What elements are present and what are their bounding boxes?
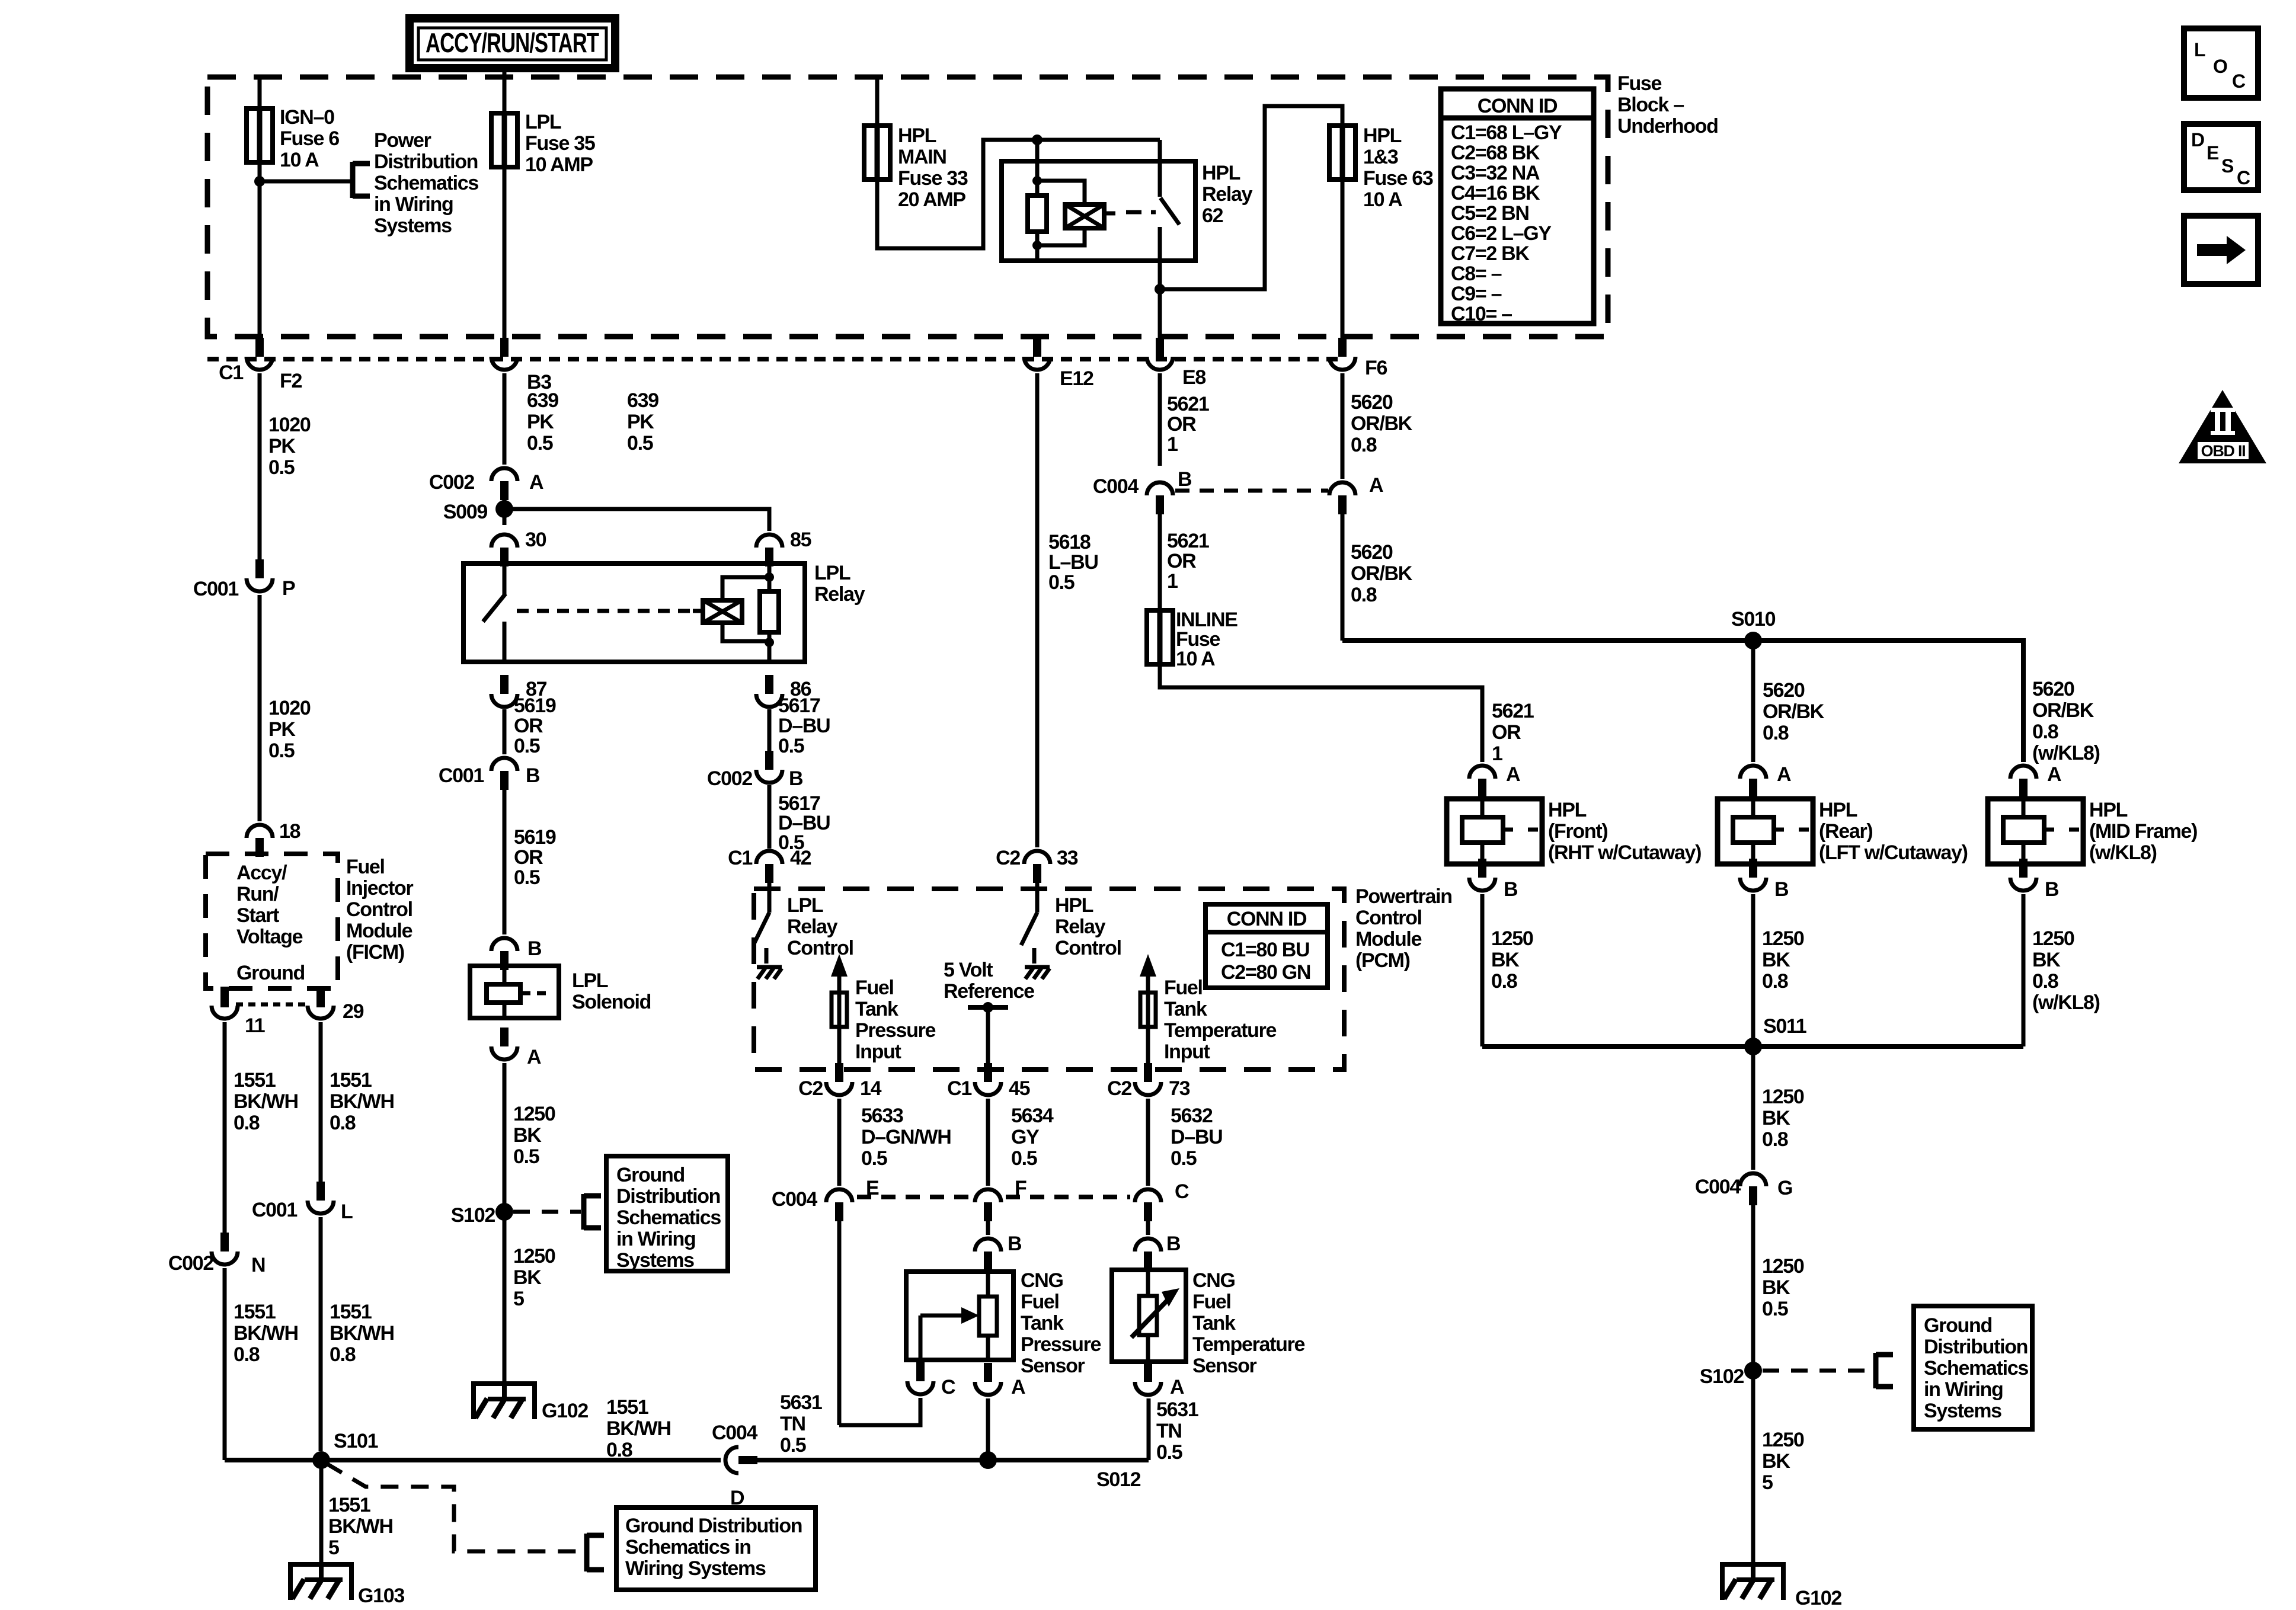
svg-text:0.8: 0.8	[1763, 722, 1789, 744]
svg-text:11: 11	[245, 1014, 265, 1037]
connector pin E8	[1156, 338, 1164, 357]
connector relay pin 85	[765, 548, 773, 566]
connector PCM pin 42 (C1)	[765, 864, 773, 883]
svg-text:BK: BK	[513, 1124, 542, 1147]
svg-text:P: P	[282, 577, 295, 600]
svg-text:OR: OR	[1167, 413, 1196, 436]
svg-text:0.5: 0.5	[1171, 1147, 1197, 1170]
svg-text:PK: PK	[527, 411, 554, 433]
svg-text:C: C	[2237, 167, 2250, 188]
svg-text:(w/KL8): (w/KL8)	[2032, 991, 2100, 1014]
svg-text:IGN–0: IGN–0	[280, 106, 334, 129]
svg-text:Relay: Relay	[1202, 183, 1253, 206]
svg-text:A: A	[1170, 1376, 1184, 1398]
svg-text:5620: 5620	[1763, 679, 1805, 702]
svg-text:85: 85	[790, 529, 811, 551]
wire: solenoid A to G102	[503, 1063, 507, 1382]
svg-text:Fuel: Fuel	[855, 977, 894, 999]
svg-text:0.8: 0.8	[234, 1112, 260, 1134]
svg-text:1250: 1250	[513, 1245, 555, 1267]
wire: 5620 bus to mid lamp	[1342, 641, 2023, 762]
FICM pin 29 stub	[316, 988, 325, 1007]
junction on HPL relay feed	[1032, 135, 1043, 145]
svg-text:BK/WH: BK/WH	[328, 1515, 393, 1538]
junction: switch output to fuse 63	[1155, 284, 1165, 295]
connector relay pin 87	[500, 675, 509, 694]
svg-text:B: B	[1166, 1233, 1181, 1255]
svg-text:C1: C1	[947, 1077, 971, 1100]
svg-text:in Wiring: in Wiring	[374, 193, 453, 216]
wire: C004 F to sensor B	[986, 1220, 990, 1235]
svg-text:B: B	[789, 767, 803, 790]
svg-text:C7=2 BK: C7=2 BK	[1451, 242, 1530, 265]
LPL relay coil resistor	[760, 591, 779, 632]
connector C004 pin F	[984, 1202, 992, 1221]
svg-text:A: A	[1506, 763, 1520, 786]
dashed connector row C004 (B to A)	[1175, 489, 1328, 493]
dotted connector row between pins 11/29	[236, 1003, 309, 1007]
power feed banner ACCY/RUN/START	[410, 18, 615, 68]
svg-text:C: C	[2232, 71, 2246, 92]
svg-text:A: A	[529, 471, 543, 494]
svg-text:PK: PK	[268, 435, 296, 457]
svg-text:OR/BK: OR/BK	[1351, 412, 1413, 435]
svg-text:G: G	[1777, 1177, 1792, 1199]
svg-text:1551: 1551	[234, 1301, 276, 1323]
svg-text:LPL: LPL	[787, 894, 823, 917]
connector PCM pin 45 (C1)	[984, 1063, 992, 1082]
svg-text:C002: C002	[707, 767, 752, 790]
svg-text:Sensor: Sensor	[1021, 1355, 1085, 1377]
svg-text:C001: C001	[193, 578, 238, 600]
svg-text:5621: 5621	[1167, 530, 1209, 552]
svg-text:A: A	[1777, 763, 1791, 786]
lamp HPL x=2501	[1447, 799, 1542, 864]
wire: inline fuse to HPL front lamp	[1160, 664, 1482, 762]
connector relay pin 30	[500, 548, 509, 566]
connector C004 pin C	[1144, 1202, 1152, 1221]
wire: pin 85 to coil	[768, 564, 772, 591]
svg-text:S009: S009	[443, 501, 488, 523]
svg-text:18: 18	[279, 820, 300, 843]
svg-text:(FICM): (FICM)	[346, 941, 404, 964]
ground bus: C004 D to temp sensor	[757, 1458, 1149, 1462]
svg-text:BK: BK	[1762, 1450, 1790, 1473]
svg-text:BK: BK	[1762, 1276, 1790, 1299]
svg-text:PK: PK	[268, 718, 296, 741]
svg-text:C1: C1	[728, 847, 752, 869]
wire: pin 29 down	[319, 1022, 323, 1183]
svg-text:Control: Control	[1055, 937, 1121, 959]
splice S012	[979, 1451, 997, 1469]
connector lamp pin A x=2958	[1749, 779, 1757, 798]
connector C001 pin L	[316, 1182, 325, 1201]
svg-text:Pressure: Pressure	[855, 1019, 936, 1042]
wire: feed to HPL MAIN fuse	[875, 77, 880, 126]
wire: switch to E8	[1158, 227, 1162, 341]
splice S011	[1744, 1038, 1762, 1055]
svg-text:45: 45	[1009, 1077, 1030, 1100]
connector PCM pin 33 (C2)	[1033, 864, 1041, 883]
off-page ref bracket (power distribution)	[350, 162, 356, 198]
svg-text:S: S	[2221, 155, 2234, 177]
svg-text:G103: G103	[358, 1585, 404, 1607]
wire: lamp B to S011 bus	[1751, 894, 1755, 1046]
svg-text:C004: C004	[1695, 1176, 1741, 1198]
svg-text:BK/WH: BK/WH	[330, 1322, 394, 1345]
svg-text:CNG: CNG	[1192, 1269, 1235, 1292]
svg-text:5621: 5621	[1492, 700, 1534, 722]
svg-text:Block –: Block –	[1617, 94, 1684, 116]
svg-text:D–GN/WH: D–GN/WH	[861, 1126, 951, 1148]
svg-text:HPL: HPL	[1055, 894, 1093, 917]
PCM dashed box	[754, 889, 1344, 1070]
svg-text:0.8: 0.8	[606, 1439, 632, 1461]
connector relay pin 86	[765, 675, 773, 694]
connector pressure sensor pin C	[916, 1362, 925, 1381]
svg-text:5619: 5619	[514, 694, 556, 717]
HPL relay control switch + ground	[1035, 883, 1040, 913]
wire: C004 A down	[1341, 513, 1345, 641]
svg-text:1551: 1551	[328, 1494, 370, 1516]
svg-text:5 Volt: 5 Volt	[944, 959, 993, 981]
svg-text:C1: C1	[219, 361, 243, 384]
wire: S010 to rear lamp	[1751, 641, 1755, 762]
LPL relay coil crossed-box	[703, 600, 742, 623]
svg-text:BK/WH: BK/WH	[606, 1417, 671, 1440]
wire: branch to HPL 1&3 Fuse 63	[1160, 106, 1342, 289]
LPL relay control switch + ground	[768, 883, 772, 913]
svg-text:0.5: 0.5	[1011, 1147, 1037, 1170]
svg-text:0.8: 0.8	[2032, 721, 2058, 743]
svg-text:Run/: Run/	[236, 883, 279, 905]
HPL relay switch blade	[1160, 198, 1179, 225]
svg-text:C002: C002	[429, 471, 474, 494]
wire: coil parallel branch bottom	[1037, 228, 1085, 245]
connector C1 pin F2	[255, 338, 264, 357]
svg-text:0.8: 0.8	[1351, 584, 1377, 606]
wire: ACCY box to LPL Fuse 35 / B3	[503, 68, 507, 341]
svg-text:0.8: 0.8	[1351, 434, 1377, 456]
svg-text:10 AMP: 10 AMP	[525, 153, 593, 176]
FICM pin 11 stub	[220, 988, 229, 1007]
off-page ref bracket (S102 left)	[581, 1194, 587, 1230]
svg-text:Fuse 6: Fuse 6	[280, 127, 339, 150]
svg-text:(Rear): (Rear)	[1819, 820, 1872, 843]
svg-text:0.5: 0.5	[527, 432, 553, 454]
svg-text:Ground: Ground	[1924, 1314, 1992, 1337]
connector C004 pin A	[1338, 495, 1347, 514]
wire: coil feed into relay	[1035, 140, 1040, 196]
svg-text:BK: BK	[1491, 949, 1520, 971]
svg-text:S102: S102	[1700, 1365, 1744, 1388]
svg-text:Relay: Relay	[1055, 916, 1106, 938]
svg-text:BK/WH: BK/WH	[234, 1090, 298, 1113]
svg-text:E8: E8	[1182, 366, 1205, 389]
CONN ID table (fuse block underhood)	[1441, 89, 1594, 324]
svg-text:E12: E12	[1060, 367, 1093, 390]
ref box: Ground Distribution Schematics in Wiring Systems	[616, 1507, 816, 1590]
wire: 87 to C001 B	[503, 709, 507, 754]
svg-text:A: A	[2047, 763, 2061, 786]
svg-text:F2: F2	[280, 370, 302, 392]
splice S102 (right)	[1744, 1362, 1762, 1379]
svg-text:10 A: 10 A	[280, 149, 319, 171]
svg-text:D: D	[2191, 129, 2204, 151]
svg-text:0.5: 0.5	[780, 1434, 806, 1457]
svg-text:29: 29	[343, 1000, 364, 1023]
wire: C002 B to PCM pin 42	[768, 785, 772, 849]
svg-text:Module: Module	[1355, 928, 1422, 950]
off-page ref bracket (S101)	[584, 1534, 590, 1571]
svg-text:73: 73	[1169, 1077, 1190, 1100]
wire: pin 30 into switch	[503, 564, 507, 595]
svg-text:0.8: 0.8	[2032, 970, 2058, 993]
connector FICM pin 29	[316, 987, 325, 1006]
svg-text:1250: 1250	[1762, 927, 1804, 950]
wire: S011 to C004 G	[1751, 1046, 1755, 1170]
svg-text:10 A: 10 A	[1363, 188, 1402, 211]
svg-text:S101: S101	[334, 1430, 378, 1452]
svg-text:(LFT w/Cutaway): (LFT w/Cutaway)	[1819, 841, 1968, 864]
svg-text:1250: 1250	[1491, 927, 1533, 950]
connector lamp pin A x=3414	[2019, 779, 2028, 798]
svg-text:Accy/: Accy/	[236, 862, 287, 884]
svg-text:C8= –: C8= –	[1451, 263, 1502, 285]
svg-text:639: 639	[527, 389, 558, 412]
svg-text:L: L	[341, 1201, 353, 1223]
svg-text:Schematics: Schematics	[616, 1206, 721, 1229]
svg-text:42: 42	[790, 847, 811, 869]
svg-text:5618: 5618	[1048, 531, 1091, 553]
connector FICM pin 11	[220, 987, 229, 1006]
svg-text:B: B	[1008, 1233, 1022, 1255]
CNG Fuel Tank Pressure Sensor box	[906, 1272, 1013, 1360]
svg-text:C5=2 BN: C5=2 BN	[1451, 202, 1529, 225]
svg-text:30: 30	[525, 529, 546, 551]
svg-text:Control: Control	[1355, 907, 1422, 929]
dashed ref from S101	[327, 1464, 580, 1551]
connector C002 pin N	[220, 1233, 229, 1251]
svg-text:BK: BK	[1762, 1107, 1790, 1129]
svg-text:Ground: Ground	[236, 962, 305, 984]
svg-text:5634: 5634	[1011, 1105, 1054, 1127]
svg-text:N: N	[251, 1254, 265, 1276]
svg-text:Systems: Systems	[1924, 1400, 2001, 1422]
CNG Fuel Tank Temperature Sensor box	[1112, 1270, 1186, 1362]
wire: coil parallel branch top	[722, 577, 769, 600]
connector temp sensor pin A	[1144, 1363, 1152, 1382]
svg-text:1: 1	[1167, 433, 1178, 456]
svg-text:Start: Start	[236, 904, 279, 927]
svg-text:0.5: 0.5	[1048, 571, 1075, 594]
relay actuation dashed link	[1126, 210, 1156, 215]
wire: C001 L to S101	[319, 1217, 323, 1451]
connector C004 pin G	[1749, 1186, 1757, 1205]
dashed connector row C004 (E to F)	[857, 1195, 970, 1199]
svg-text:Fuel: Fuel	[346, 856, 385, 878]
svg-text:5: 5	[1762, 1471, 1773, 1494]
wire: coil parallel branch top	[1037, 181, 1085, 204]
connector lamp pin B x=2501	[1478, 859, 1486, 878]
wire: tap to power distribution ref	[260, 180, 353, 184]
svg-text:C2: C2	[996, 847, 1020, 869]
temp sensor diagonal arrow	[1131, 1299, 1168, 1337]
svg-text:Fuse: Fuse	[1617, 72, 1662, 95]
svg-text:(w/KL8): (w/KL8)	[2032, 742, 2100, 764]
svg-text:Systems: Systems	[616, 1249, 694, 1272]
svg-text:OR/BK: OR/BK	[1351, 562, 1413, 585]
svg-text:HPL: HPL	[898, 124, 936, 147]
svg-text:MAIN: MAIN	[898, 146, 946, 168]
svg-text:C4=16 BK: C4=16 BK	[1451, 182, 1540, 204]
svg-text:0.8: 0.8	[1762, 970, 1788, 993]
svg-text:5: 5	[513, 1288, 524, 1310]
svg-text:OR: OR	[514, 846, 543, 869]
svg-text:HPL: HPL	[1548, 799, 1587, 821]
svg-text:C: C	[941, 1376, 955, 1398]
ground bus: left elbow to C004 D	[225, 1458, 721, 1462]
DESC legend box	[2184, 124, 2258, 190]
svg-text:C004: C004	[1093, 475, 1139, 498]
relay HPL Relay 62 box	[1002, 161, 1195, 261]
wire: ACCY feed to IGN-0 fuse / F2	[258, 77, 262, 341]
svg-text:(w/KL8): (w/KL8)	[2089, 841, 2157, 864]
svg-text:C002: C002	[168, 1252, 213, 1275]
svg-text:62: 62	[1202, 204, 1223, 227]
wire: temp sensor A to bus corner	[1147, 1398, 1151, 1460]
svg-text:(Front): (Front)	[1548, 820, 1607, 843]
svg-text:CONN ID: CONN ID	[1478, 95, 1558, 117]
fuse HPL 1&3 Fuse 63 10A	[1329, 126, 1355, 180]
svg-text:5633: 5633	[861, 1105, 903, 1127]
svg-text:Temperature: Temperature	[1164, 1019, 1277, 1042]
svg-text:Fuse 33: Fuse 33	[898, 167, 968, 190]
svg-text:CNG: CNG	[1021, 1269, 1063, 1292]
svg-text:1551: 1551	[330, 1301, 372, 1323]
svg-text:5: 5	[328, 1537, 339, 1559]
lamp HPL x=2958	[1718, 799, 1813, 864]
wire: C004 B to inline fuse	[1158, 513, 1162, 610]
svg-text:1551: 1551	[330, 1069, 372, 1092]
wire: S009 branch to relay pin 85	[504, 509, 769, 531]
wire: pressure A to S012	[986, 1398, 990, 1460]
connector C001 pin B	[500, 771, 509, 790]
svg-text:0.5: 0.5	[514, 735, 540, 757]
svg-text:1250: 1250	[1762, 1086, 1804, 1108]
svg-text:Ground: Ground	[616, 1164, 685, 1186]
svg-text:S010: S010	[1731, 608, 1776, 630]
svg-text:33: 33	[1057, 847, 1078, 869]
svg-text:ACCY/RUN/START: ACCY/RUN/START	[426, 27, 599, 58]
HPL relay coil resistor	[1028, 196, 1047, 232]
svg-text:Tank: Tank	[1192, 1312, 1236, 1334]
wire: C004 G to G102	[1751, 1204, 1755, 1563]
LPL relay switch blade	[483, 594, 506, 622]
junction: IGN-0 tap	[254, 176, 265, 187]
svg-text:14: 14	[860, 1077, 882, 1100]
connector C004 pin E	[835, 1202, 843, 1221]
connector pin F6	[1338, 338, 1347, 357]
svg-text:5620: 5620	[1351, 541, 1393, 564]
svg-text:Schematics: Schematics	[374, 172, 478, 194]
svg-text:LPL: LPL	[572, 969, 608, 992]
wire: coil to pin 86	[768, 632, 772, 662]
svg-text:G102: G102	[1795, 1587, 1841, 1609]
svg-text:Systems: Systems	[374, 215, 452, 237]
wire: C001 B to solenoid B	[503, 790, 507, 934]
off-page ref bracket (S102 right)	[1873, 1353, 1879, 1388]
svg-text:0.5: 0.5	[268, 740, 295, 762]
svg-text:L–BU: L–BU	[1048, 551, 1098, 574]
svg-text:5631: 5631	[1156, 1398, 1198, 1421]
wire: 73 to C004 C	[1146, 1099, 1150, 1186]
fuse LPL Fuse 35 10 AMP	[491, 113, 517, 167]
ref box: Ground Distribution Schematics in Wiring Systems (right)	[1914, 1306, 2032, 1429]
connector PCM pin 73 (C2)	[1144, 1063, 1152, 1082]
wire: pin 11 down	[223, 1022, 227, 1234]
connector temp sensor pin B	[1144, 1251, 1152, 1270]
wire: fuse 33 to HPL relay feed	[877, 140, 1160, 248]
svg-text:C2: C2	[1107, 1077, 1131, 1100]
svg-text:OR: OR	[1167, 550, 1196, 572]
svg-text:B: B	[1178, 468, 1192, 491]
ground G103	[288, 1562, 354, 1567]
svg-text:OR/BK: OR/BK	[1763, 700, 1825, 723]
svg-text:Distribution: Distribution	[374, 151, 478, 173]
wire: C004 E down to pressure C	[837, 1220, 842, 1425]
connector PCM pin 14 (C2)	[835, 1063, 843, 1082]
svg-text:Tank: Tank	[1164, 998, 1207, 1020]
svg-text:5621: 5621	[1167, 393, 1209, 415]
pressure sensor wiper arrow	[920, 1314, 961, 1318]
svg-text:E: E	[2207, 142, 2219, 164]
connector C002 pin B	[765, 751, 773, 770]
wire: 14 to C004 E	[837, 1099, 842, 1186]
svg-text:PK: PK	[627, 411, 654, 433]
svg-text:Fuel: Fuel	[1164, 977, 1203, 999]
svg-text:C2: C2	[798, 1077, 823, 1100]
svg-text:C3=32 NA: C3=32 NA	[1451, 162, 1540, 184]
wire: coil resistor to E12	[1035, 232, 1040, 261]
coil stub	[1105, 212, 1115, 216]
wire: switch to pin 87	[503, 622, 507, 662]
svg-text:OBD II: OBD II	[2201, 442, 2246, 460]
svg-text:A: A	[527, 1046, 541, 1068]
svg-text:1: 1	[1492, 742, 1502, 765]
svg-text:Fuse 63: Fuse 63	[1363, 167, 1433, 190]
svg-text:Injector: Injector	[346, 877, 413, 900]
svg-text:TN: TN	[780, 1413, 805, 1435]
svg-text:HPL: HPL	[1363, 124, 1402, 147]
svg-text:1&3: 1&3	[1363, 146, 1398, 168]
wire: C001 P to FICM pin 18	[258, 595, 262, 821]
svg-text:LPL: LPL	[814, 562, 850, 584]
svg-text:(PCM): (PCM)	[1355, 949, 1410, 972]
svg-text:C004: C004	[712, 1422, 757, 1444]
svg-text:in Wiring: in Wiring	[1924, 1378, 2003, 1401]
svg-text:5620: 5620	[1351, 391, 1393, 414]
svg-text:(RHT w/Cutaway): (RHT w/Cutaway)	[1548, 841, 1701, 864]
LOC legend box	[2184, 28, 2258, 98]
connector pin E12	[1033, 338, 1041, 357]
svg-text:D: D	[730, 1487, 744, 1509]
wire: elbow to pressure sensor C	[839, 1398, 920, 1425]
connector pin B3	[500, 338, 509, 357]
svg-text:0.8: 0.8	[1762, 1128, 1788, 1151]
svg-text:(MID Frame): (MID Frame)	[2089, 820, 2197, 843]
pressure sensor potentiometer	[979, 1297, 997, 1336]
